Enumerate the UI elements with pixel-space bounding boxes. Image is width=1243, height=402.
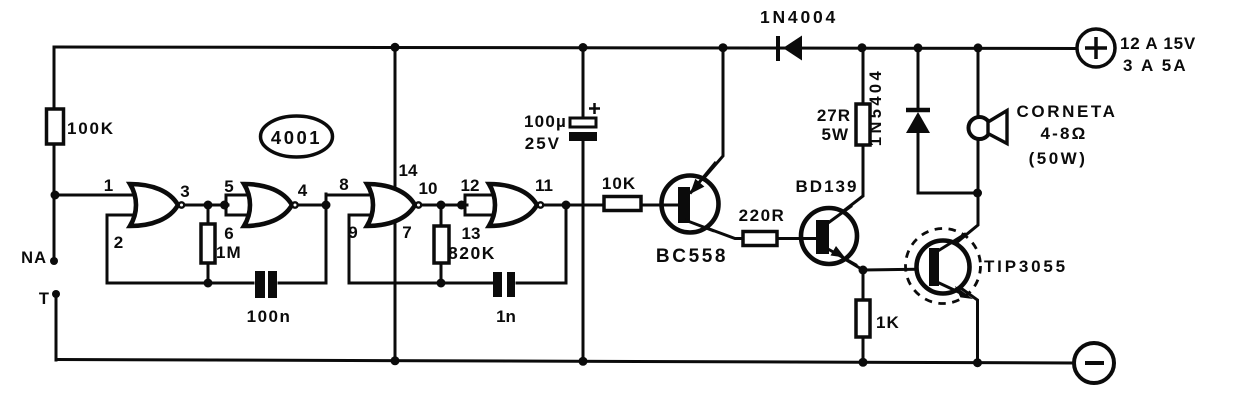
svg-text:3 A 5A: 3 A 5A <box>1123 56 1188 75</box>
svg-text:8: 8 <box>339 175 348 194</box>
svg-text:1: 1 <box>104 176 113 195</box>
wire TIP3055 emitter to ground <box>944 276 978 363</box>
capacitor 100u 25V electrolytic <box>524 103 600 153</box>
wire 100n right to node 4 vertical <box>279 194 326 283</box>
wire BC558 emitter to +V rail <box>690 48 723 194</box>
capacitor 100n <box>247 271 292 326</box>
wire left feedback line to 100n <box>107 282 253 285</box>
wire T contact to ground rail <box>55 294 58 360</box>
terminal +12V supply <box>1077 29 1196 75</box>
wire BC558 collector to 220R <box>685 220 743 239</box>
node NA contact <box>21 249 58 267</box>
capacitor 1n <box>493 272 516 326</box>
resistor 220R <box>739 206 786 246</box>
wire 1M top lead <box>207 205 210 224</box>
svg-text:6: 6 <box>224 224 233 243</box>
wire 1M bottom lead <box>207 263 210 283</box>
wire 100K bottom to NA contact <box>53 144 56 261</box>
resistor 27R 5W <box>817 104 870 145</box>
wire gate1 output node 3 <box>184 204 228 207</box>
svg-text:1N5404: 1N5404 <box>867 68 885 146</box>
wire horn bottom to TIP3055 collector <box>944 139 978 253</box>
svg-text:12 A 15V: 12 A 15V <box>1120 34 1196 53</box>
svg-text:1n: 1n <box>496 307 516 326</box>
svg-text:100n: 100n <box>247 307 292 326</box>
svg-text:2: 2 <box>114 233 123 252</box>
wire left vertical from +V rail to 100K <box>53 47 56 109</box>
terminal ground minus <box>1074 343 1114 383</box>
wire node4 jog to gate3 pin8 <box>326 194 368 197</box>
resistor 820K <box>434 226 496 263</box>
svg-text:5: 5 <box>224 177 233 196</box>
wire node B to TIP3055 base <box>863 269 933 270</box>
svg-text:10K: 10K <box>602 174 636 193</box>
wire BD139 collector to 27R <box>828 106 863 223</box>
wire 820K bottom lead <box>440 263 443 283</box>
op-amp gate U1C NOR pins 8,9,10 <box>367 184 421 226</box>
wire node A to gate1 pin1 <box>54 194 146 197</box>
svg-text:10: 10 <box>419 179 438 198</box>
diode D2 1N5404 <box>867 68 930 146</box>
svg-text:100µ: 100µ <box>524 112 567 131</box>
wire bottom ground rail <box>56 360 1074 364</box>
svg-text:1M: 1M <box>216 243 242 262</box>
wire 1n right up to node 11 <box>517 205 566 283</box>
loudspeaker horn CORNETA <box>969 102 1118 168</box>
svg-text:BD139: BD139 <box>796 177 859 196</box>
svg-text:1K: 1K <box>876 313 900 332</box>
wire gate1 pin2 feedback branch <box>107 215 146 283</box>
wire gate4 input bracket pins 12-13 <box>465 195 499 215</box>
wire BD139 emitter to node B <box>828 249 863 270</box>
svg-text:27R: 27R <box>817 106 851 125</box>
svg-text:NA: NA <box>21 249 47 267</box>
svg-text:4001: 4001 <box>271 127 322 148</box>
transistor Q1 BC558 PNP <box>656 162 728 267</box>
diode D1 1N4004 <box>760 7 838 61</box>
svg-text:9: 9 <box>348 223 357 242</box>
op-amp gate U1D NOR pins 12,13,11 <box>489 184 543 226</box>
wire right feedback line to 1n <box>349 282 492 285</box>
svg-text:CORNETA: CORNETA <box>1017 102 1118 121</box>
svg-text:7: 7 <box>402 223 411 242</box>
wire 1K leads <box>862 270 865 362</box>
wire gate3 output node 10 <box>421 204 467 207</box>
wire 820K top lead <box>440 205 443 226</box>
svg-text:13: 13 <box>462 224 481 243</box>
resistor R1 100K <box>47 109 115 144</box>
svg-text:100K: 100K <box>67 119 115 138</box>
svg-text:TIP3055: TIP3055 <box>984 257 1068 276</box>
op-amp gate U1B NOR pins 5,6,4 <box>244 184 298 226</box>
svg-text:4: 4 <box>298 181 308 200</box>
svg-text:11: 11 <box>535 176 553 195</box>
svg-text:14: 14 <box>399 161 418 180</box>
svg-text:25V: 25V <box>525 134 561 153</box>
IC label 4001 in ellipse <box>261 116 333 157</box>
node T contact <box>39 290 60 308</box>
svg-text:5W: 5W <box>822 125 850 144</box>
wire top +V rail <box>54 47 1077 49</box>
wire 220R to BD139 base <box>777 237 817 240</box>
svg-text:4-8Ω: 4-8Ω <box>1040 124 1087 143</box>
resistor 1K <box>856 300 900 337</box>
svg-text:T: T <box>39 290 49 308</box>
wire 1N5404 branch <box>918 48 978 193</box>
pin number labels 4001 <box>104 161 553 252</box>
svg-text:12: 12 <box>461 176 480 195</box>
transistor Q3 TIP3055 NPN with dashed package circle <box>906 229 1068 304</box>
resistor 1M <box>201 224 242 263</box>
svg-text:820K: 820K <box>448 243 496 263</box>
resistor 10K <box>602 174 641 211</box>
svg-text:3: 3 <box>180 182 189 201</box>
wire horn top lead <box>977 48 980 117</box>
wire gate2 input bracket pins 5-6 <box>226 195 250 215</box>
svg-text:1N4004: 1N4004 <box>760 7 838 27</box>
svg-text:(50W): (50W) <box>1029 149 1088 168</box>
wire gate3 pin9 to right feedback <box>349 215 372 283</box>
svg-text:220R: 220R <box>739 206 786 225</box>
wire gate4 output node 11 to 10K <box>543 204 604 207</box>
op-amp gate U1A NOR pins 1,2,3 <box>130 184 184 226</box>
transistor Q2 BD139 NPN <box>796 177 859 266</box>
wire 100u cap / ground vertical <box>582 48 585 362</box>
svg-text:BC558: BC558 <box>656 246 728 267</box>
wire gate2 output node 4 <box>298 204 326 207</box>
wire 4001 power pins 14-7 vertical <box>394 47 397 361</box>
wire 10K to BC558 base <box>641 204 678 207</box>
wire 27R top to +V rail <box>862 48 865 104</box>
